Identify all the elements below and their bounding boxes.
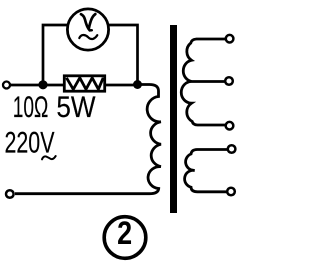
transformer secondary winding L2 (tapped) bbox=[181, 39, 226, 125]
wire: resistor to node B bbox=[105, 84, 138, 87]
voltmeter label V bbox=[81, 14, 95, 29]
svg-text:5W: 5W bbox=[56, 91, 96, 124]
terminal T3 bbox=[226, 122, 234, 130]
wire: main horizontal line from left terminal to resistor bbox=[11, 84, 65, 87]
label AC tilde under V bbox=[42, 156, 56, 159]
terminal: input bottom-left open circle bbox=[6, 190, 14, 198]
terminal: input top-left open circle bbox=[3, 82, 10, 89]
wire: secondary middle tap lead bbox=[192, 80, 225, 83]
voltmeter U1 circle bbox=[67, 9, 108, 50]
wire: voltmeter branch left (node A up and right to voltmeter) bbox=[43, 25, 68, 85]
resistor R1 zigzag bbox=[67, 78, 104, 90]
terminal T1 bbox=[226, 35, 234, 43]
resistor R1 box 10ohm 5W bbox=[64, 76, 104, 91]
transformer primary winding L1 bbox=[15, 85, 161, 194]
svg-text:220V: 220V bbox=[5, 127, 55, 160]
wire: voltmeter branch right (voltmeter to node B) bbox=[109, 25, 138, 85]
svg-text:2: 2 bbox=[117, 215, 132, 251]
transformer secondary winding L3 bbox=[185, 150, 227, 192]
node A junction dot bbox=[38, 80, 47, 89]
svg-text:10Ω: 10Ω bbox=[13, 91, 49, 124]
voltmeter AC tilde bbox=[79, 35, 97, 39]
node B junction dot bbox=[133, 80, 142, 89]
terminal T5 bbox=[227, 188, 235, 196]
terminal T4 bbox=[228, 145, 236, 153]
terminal T2 bbox=[225, 77, 233, 85]
figure number circle 2 bbox=[104, 217, 146, 259]
transformer core bar bbox=[170, 25, 177, 213]
